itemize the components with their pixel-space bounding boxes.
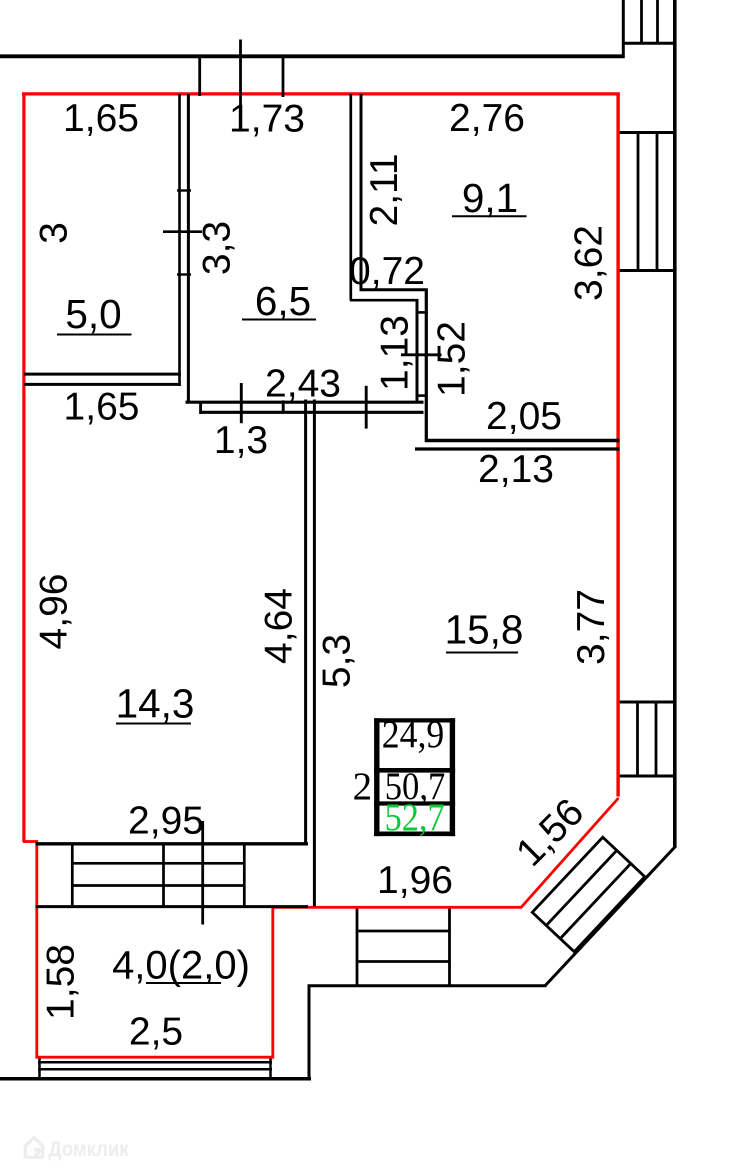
svg-text:4,64: 4,64 [258, 588, 301, 664]
svg-text:6,5: 6,5 [255, 278, 311, 324]
svg-text:3,3: 3,3 [196, 221, 239, 275]
svg-text:1,65: 1,65 [64, 386, 140, 429]
svg-text:1,52: 1,52 [431, 321, 474, 397]
svg-text:4,0(2,0): 4,0(2,0) [112, 944, 250, 988]
svg-text:1,96: 1,96 [377, 859, 453, 902]
svg-text:2,05: 2,05 [486, 395, 562, 438]
svg-text:1,58: 1,58 [40, 944, 83, 1020]
svg-text:24,9: 24,9 [382, 713, 445, 756]
svg-text:4,96: 4,96 [33, 574, 76, 650]
svg-text:2,11: 2,11 [363, 153, 406, 226]
svg-text:3: 3 [32, 222, 75, 244]
svg-text:2,95: 2,95 [128, 800, 204, 843]
svg-text:5,0: 5,0 [65, 291, 121, 337]
svg-text:2,13: 2,13 [478, 448, 554, 491]
svg-text:3,77: 3,77 [570, 589, 613, 665]
svg-text:2,43: 2,43 [265, 363, 341, 406]
svg-text:2: 2 [353, 765, 373, 808]
svg-text:Домклик: Домклик [49, 1138, 129, 1161]
svg-text:1,65: 1,65 [63, 97, 139, 140]
svg-text:14,3: 14,3 [116, 681, 195, 727]
svg-text:1,3: 1,3 [214, 419, 268, 462]
svg-text:5,3: 5,3 [316, 634, 359, 688]
svg-text:0,72: 0,72 [349, 250, 425, 293]
svg-text:1,73: 1,73 [229, 98, 305, 141]
svg-text:2,5: 2,5 [129, 1011, 183, 1054]
svg-text:2,76: 2,76 [449, 97, 525, 140]
svg-text:1,13: 1,13 [374, 315, 417, 391]
svg-text:15,8: 15,8 [445, 607, 524, 653]
svg-text:3,62: 3,62 [568, 225, 611, 301]
svg-text:9,1: 9,1 [462, 175, 518, 221]
svg-text:52,7: 52,7 [385, 796, 445, 839]
